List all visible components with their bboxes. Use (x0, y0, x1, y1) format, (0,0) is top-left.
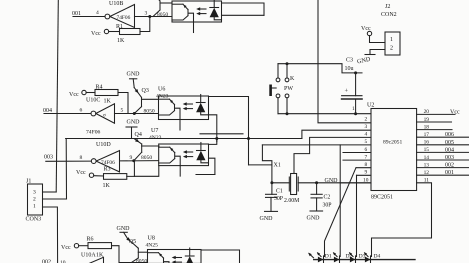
pin 13 net 002 (417, 167, 469, 169)
wire: crystal left net (272, 182, 289, 184)
svg-text:D4: D4 (374, 254, 381, 260)
svg-text:X1: X1 (274, 163, 281, 169)
wire: U6 LED bottom to rail (209, 115, 217, 142)
svg-text:3: 3 (365, 124, 368, 130)
svg-text:003: 003 (44, 155, 53, 161)
svg-text:6: 6 (80, 108, 83, 114)
svg-text:4: 4 (96, 10, 99, 16)
svg-text:GND: GND (117, 226, 131, 232)
svg-text:U10D: U10D (96, 142, 111, 148)
node: Q4 base junction (132, 159, 135, 162)
svg-text:10u: 10u (345, 66, 354, 72)
svg-text:U8: U8 (148, 236, 155, 242)
svg-text:16: 16 (424, 140, 430, 146)
wire: U10C output (115, 113, 159, 115)
ground (J2) (370, 50, 385, 55)
svg-text:001: 001 (445, 170, 454, 176)
wire: J1 pin2 to GND rail riser (43, 139, 67, 200)
wire: pin5 drop to crystal-left net (262, 145, 272, 183)
wire: vertical to MCU pin2 (RXD) (318, 0, 371, 123)
svg-text:30P: 30P (323, 203, 332, 209)
svg-text:J2: J2 (385, 4, 390, 10)
svg-text:2: 2 (33, 197, 36, 203)
wire: pin6 stub (343, 152, 371, 154)
svg-text:8: 8 (365, 162, 368, 168)
wire: RST line (MCU pin1) (278, 113, 371, 115)
svg-text:GND: GND (260, 216, 274, 222)
svg-text:1K: 1K (104, 99, 112, 105)
wire: U7 top-right to rail (209, 139, 217, 145)
wire: U8 top-right down (201, 250, 240, 263)
wire: pin8 stub (356, 167, 371, 169)
op-amp U10D 74F06 inverter (91, 159, 96, 164)
pin 20 net Vcc (417, 113, 455, 115)
svg-text:U2: U2 (367, 103, 374, 109)
svg-text:R6: R6 (87, 237, 94, 243)
svg-text:2: 2 (365, 116, 368, 122)
svg-text:C2: C2 (324, 195, 331, 201)
svg-text:J1: J1 (26, 178, 31, 184)
pin 18 (417, 129, 452, 131)
wire: short bar row2 (200, 133, 243, 135)
svg-text:C1: C1 (276, 189, 283, 195)
svg-text:σ: σ (103, 113, 106, 119)
wire: pin11 route to D4 (372, 183, 432, 256)
svg-text:C3: C3 (346, 58, 353, 64)
wire: U9 LED top loop (222, 3, 265, 15)
svg-text:8050: 8050 (141, 155, 152, 161)
wire: U9 right mid (222, 14, 265, 16)
optocoupler U9 (row1) 4N25 (172, 1, 222, 22)
svg-text:8050: 8050 (157, 12, 168, 18)
node: RST junction (354, 112, 357, 115)
svg-text:14: 14 (424, 155, 430, 161)
svg-text:003: 003 (445, 155, 454, 161)
wire: J1 pin1 down to bottom edge (43, 207, 58, 263)
svg-text:2.00M: 2.00M (284, 198, 299, 204)
svg-text:3: 3 (145, 11, 148, 17)
svg-text:8050: 8050 (144, 108, 155, 114)
svg-text:Vcc: Vcc (91, 31, 101, 37)
wire: GND rail (66, 138, 302, 140)
wire: MCU pin4 to crystal staircase (294, 137, 371, 173)
svg-text:1: 1 (352, 106, 355, 112)
node: top rail junction (286, 62, 289, 65)
wire: pin9 stub (357, 174, 372, 176)
svg-text:18: 18 (424, 124, 430, 130)
wire: U6 LED top riser (209, 97, 249, 165)
wire: pin8 diagonal to D1 (325, 168, 357, 257)
svg-text:15: 15 (424, 147, 430, 153)
wire: row2 LED-top riser down (249, 164, 272, 166)
node: Q3 base junction (133, 112, 136, 115)
connector J1 CON3 (28, 184, 43, 215)
svg-text:8050: 8050 (136, 258, 147, 263)
node: C3 top junction (354, 71, 357, 74)
svg-text:Q3: Q3 (142, 88, 149, 94)
svg-text:1: 1 (390, 37, 393, 43)
svg-text:D1: D1 (325, 254, 332, 260)
svg-text:D3: D3 (359, 254, 366, 260)
svg-text:006: 006 (445, 132, 454, 138)
diode D2 LED (334, 257, 340, 263)
svg-text:K: K (290, 76, 295, 82)
svg-text:3: 3 (33, 189, 36, 195)
pin 19 (417, 121, 452, 123)
svg-text:7: 7 (365, 154, 368, 160)
svg-text:1K: 1K (103, 183, 111, 189)
wire: pin9 vertical to D3 (356, 175, 358, 256)
transistor Q1 8050 (159, 1, 161, 10)
svg-text:6: 6 (365, 147, 368, 153)
svg-text:9: 9 (365, 170, 368, 176)
svg-text:1: 1 (33, 204, 36, 210)
wire: J1 pin3 to bus (43, 191, 57, 193)
svg-text:8: 8 (80, 155, 83, 161)
node: rail junction A (215, 137, 218, 140)
pin 15 net 004 (417, 151, 469, 153)
diode D3 LED (350, 257, 356, 263)
pin 16 net 005 (417, 144, 469, 146)
ground (C1) (265, 210, 278, 212)
svg-text:89C2051: 89C2051 (371, 195, 393, 201)
wire: diode rail (314, 259, 415, 261)
svg-text:74F06: 74F06 (86, 129, 101, 135)
wire: 003 input (46, 160, 92, 162)
wire: xtal riser to D2 (339, 145, 341, 257)
svg-text:R3: R3 (104, 167, 111, 173)
svg-text:U7: U7 (151, 128, 158, 134)
wire: U10D output (120, 160, 159, 162)
switch PW (reset button) (277, 64, 279, 78)
svg-text:1K: 1K (117, 38, 125, 44)
svg-text:4: 4 (365, 132, 368, 138)
wire: U10B output to Q1 base (135, 16, 173, 18)
pin 11 (417, 182, 432, 184)
svg-text:17: 17 (424, 132, 430, 138)
svg-text:GND: GND (307, 216, 321, 222)
op-amp U10C 74F06 inverter (91, 111, 96, 116)
svg-text:9: 9 (130, 155, 133, 161)
svg-text:Vcc: Vcc (76, 170, 86, 176)
svg-text:CON2: CON2 (381, 12, 397, 18)
op-amp U10B 74F06 inverter (105, 14, 110, 19)
svg-text:20: 20 (424, 109, 430, 115)
svg-text:4N23: 4N23 (149, 135, 162, 141)
wire: U7 emitter drop to R3 node (134, 166, 158, 177)
svg-text:Vcc: Vcc (69, 92, 79, 98)
svg-text:PW: PW (284, 86, 293, 92)
wire: left bus (J1 pin3 net) vertical (56, 0, 58, 192)
pin 17 net 006 (417, 136, 469, 138)
svg-text:5: 5 (365, 139, 368, 145)
ground (C2) (310, 210, 323, 212)
svg-text:12: 12 (424, 170, 430, 176)
svg-text:Vcc: Vcc (61, 245, 71, 251)
svg-text:U10B: U10B (109, 1, 123, 7)
pin 12 net 001 (417, 174, 469, 176)
diode D1 LED (318, 257, 324, 263)
svg-text:Q4: Q4 (135, 132, 142, 138)
svg-text:+: + (345, 88, 349, 95)
pin 14 net 003 (417, 159, 469, 161)
svg-text:002: 002 (445, 163, 454, 169)
svg-text:002: 002 (42, 260, 51, 263)
svg-text:004: 004 (43, 108, 52, 114)
node: rail junction B (247, 137, 250, 140)
wire: U7 LED bottom (209, 158, 215, 174)
svg-text:5: 5 (121, 108, 124, 114)
svg-text:005: 005 (445, 140, 454, 146)
svg-text:GND: GND (127, 72, 141, 78)
svg-text:U10C: U10C (86, 98, 100, 104)
wire: rail riser to MCU pin3 (302, 130, 371, 138)
svg-text:U6: U6 (158, 87, 165, 93)
svg-text:004: 004 (445, 147, 454, 153)
wire: pin7 stub (343, 159, 371, 161)
svg-text:2: 2 (390, 46, 393, 52)
svg-text:U10A: U10A (81, 253, 96, 259)
svg-text:74F06: 74F06 (101, 160, 115, 166)
node: RST left junction (286, 112, 289, 115)
wire: 004 input (44, 113, 91, 115)
wire: 001 input (73, 16, 105, 18)
wire: reset top rail (278, 64, 362, 73)
node: C2 junction (315, 181, 318, 184)
node: C1 junction (270, 181, 273, 184)
svg-text:CON3: CON3 (26, 217, 42, 223)
svg-text:19: 19 (424, 117, 430, 123)
wire: short bar row3 (196, 174, 215, 176)
svg-text:4N25: 4N25 (146, 243, 159, 249)
svg-text:Vcc: Vcc (450, 109, 460, 115)
diode D4 LED (365, 257, 371, 263)
wire: pin10 stub (341, 182, 371, 184)
node: R1 junction (148, 15, 151, 18)
svg-text:GND: GND (127, 120, 141, 126)
wire: pin5 long wire (262, 144, 371, 146)
svg-text:13: 13 (424, 162, 430, 168)
svg-text:74F06: 74F06 (117, 15, 131, 21)
svg-text:89c2051: 89c2051 (383, 140, 402, 146)
wire: crystal right / pin10 GND net (298, 182, 371, 184)
svg-text:11: 11 (424, 178, 429, 184)
